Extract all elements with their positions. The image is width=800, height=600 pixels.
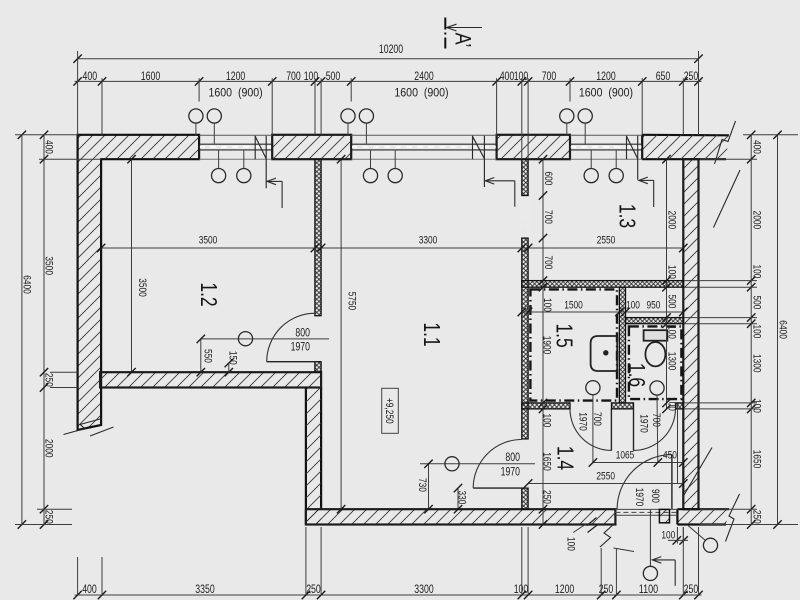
svg-text:100: 100 bbox=[514, 71, 529, 83]
svg-text:400: 400 bbox=[500, 71, 515, 83]
svg-text:250: 250 bbox=[684, 584, 699, 596]
svg-text:3300: 3300 bbox=[414, 584, 433, 596]
svg-text:700: 700 bbox=[542, 210, 554, 224]
svg-text:3500: 3500 bbox=[43, 256, 55, 275]
svg-text:1600 (900): 1600 (900) bbox=[394, 87, 448, 99]
svg-text:550: 550 bbox=[202, 349, 214, 363]
svg-text:1600: 1600 bbox=[141, 71, 160, 83]
svg-text:250: 250 bbox=[684, 71, 699, 83]
svg-text:500: 500 bbox=[666, 295, 678, 309]
svg-text:100: 100 bbox=[626, 300, 640, 312]
svg-text:250: 250 bbox=[751, 510, 763, 524]
svg-text:1200: 1200 bbox=[555, 584, 574, 596]
svg-text:900: 900 bbox=[649, 489, 661, 503]
svg-text:100: 100 bbox=[751, 399, 763, 413]
svg-text:450: 450 bbox=[663, 449, 677, 461]
svg-text:1100: 1100 bbox=[639, 584, 658, 596]
svg-text:100: 100 bbox=[666, 397, 678, 411]
svg-text:1.6: 1.6 bbox=[624, 363, 650, 387]
svg-text:1200: 1200 bbox=[226, 71, 245, 83]
svg-text:100: 100 bbox=[751, 265, 763, 279]
svg-text:2550: 2550 bbox=[597, 235, 616, 247]
svg-text:10200: 10200 bbox=[379, 44, 403, 56]
svg-text:700: 700 bbox=[542, 256, 554, 270]
svg-text:100: 100 bbox=[304, 71, 319, 83]
svg-text:100: 100 bbox=[540, 414, 552, 428]
svg-text:1970: 1970 bbox=[501, 466, 520, 478]
svg-text:3500: 3500 bbox=[136, 278, 148, 297]
svg-text:600: 600 bbox=[542, 172, 554, 186]
svg-text:700: 700 bbox=[542, 71, 557, 83]
svg-text:700: 700 bbox=[286, 71, 301, 83]
svg-text:2550: 2550 bbox=[596, 470, 615, 482]
svg-text:950: 950 bbox=[647, 300, 661, 312]
svg-text:3350: 3350 bbox=[195, 584, 214, 596]
svg-text:150: 150 bbox=[227, 351, 239, 365]
svg-text:2000: 2000 bbox=[751, 211, 763, 230]
svg-text:3300: 3300 bbox=[419, 235, 438, 247]
svg-text:1200: 1200 bbox=[596, 71, 615, 83]
svg-text:1970: 1970 bbox=[291, 342, 310, 354]
svg-text:1500: 1500 bbox=[564, 300, 583, 312]
svg-text:100: 100 bbox=[666, 265, 678, 279]
svg-text:250: 250 bbox=[43, 510, 55, 524]
svg-text:3500: 3500 bbox=[199, 235, 218, 247]
svg-text:500: 500 bbox=[751, 295, 763, 309]
svg-text:2000: 2000 bbox=[666, 211, 678, 230]
svg-text:2400: 2400 bbox=[414, 71, 433, 83]
svg-text:1.4: 1.4 bbox=[553, 446, 579, 470]
svg-text:+9,250: +9,250 bbox=[383, 398, 395, 424]
svg-text:1065: 1065 bbox=[616, 449, 635, 461]
svg-text:500: 500 bbox=[326, 71, 341, 83]
svg-text:1650: 1650 bbox=[540, 452, 552, 471]
svg-text:250: 250 bbox=[43, 373, 55, 387]
svg-text:400: 400 bbox=[751, 140, 763, 154]
svg-text:400: 400 bbox=[43, 140, 55, 154]
svg-text:1300: 1300 bbox=[666, 352, 678, 371]
svg-text:650: 650 bbox=[656, 71, 671, 83]
svg-text:800: 800 bbox=[295, 328, 310, 340]
svg-text:1300: 1300 bbox=[751, 354, 763, 373]
svg-text:730: 730 bbox=[416, 478, 428, 492]
svg-text:1970: 1970 bbox=[633, 488, 645, 507]
svg-text:100: 100 bbox=[751, 325, 763, 339]
svg-text:2000: 2000 bbox=[43, 439, 55, 458]
svg-text:1.5: 1.5 bbox=[551, 323, 577, 347]
svg-text:5750: 5750 bbox=[346, 292, 358, 311]
svg-text:1600 (900): 1600 (900) bbox=[579, 87, 633, 99]
svg-text:6400: 6400 bbox=[21, 275, 33, 294]
svg-text:1970: 1970 bbox=[637, 414, 649, 433]
svg-text:400: 400 bbox=[83, 71, 98, 83]
svg-text:700: 700 bbox=[591, 412, 603, 426]
svg-text:1650: 1650 bbox=[751, 450, 763, 469]
svg-text:250: 250 bbox=[540, 490, 552, 504]
svg-text:1.3: 1.3 bbox=[615, 204, 641, 228]
svg-text:1970: 1970 bbox=[576, 412, 588, 431]
svg-text:1600 (900): 1600 (900) bbox=[209, 87, 263, 99]
svg-text:100: 100 bbox=[565, 537, 577, 551]
svg-text:A’: A’ bbox=[451, 33, 476, 48]
svg-text:100: 100 bbox=[666, 325, 678, 339]
svg-text:400: 400 bbox=[82, 584, 97, 596]
svg-text:100: 100 bbox=[514, 584, 529, 596]
svg-text:1.1: 1.1 bbox=[419, 322, 445, 346]
svg-text:800: 800 bbox=[505, 452, 520, 464]
svg-text:700: 700 bbox=[650, 413, 662, 427]
svg-text:1.2: 1.2 bbox=[196, 282, 222, 306]
svg-text:250: 250 bbox=[306, 584, 321, 596]
svg-text:1900: 1900 bbox=[540, 336, 552, 355]
svg-text:100: 100 bbox=[661, 529, 675, 541]
svg-text:6400: 6400 bbox=[777, 320, 789, 339]
svg-text:100: 100 bbox=[541, 298, 553, 312]
svg-text:330: 330 bbox=[456, 491, 468, 505]
